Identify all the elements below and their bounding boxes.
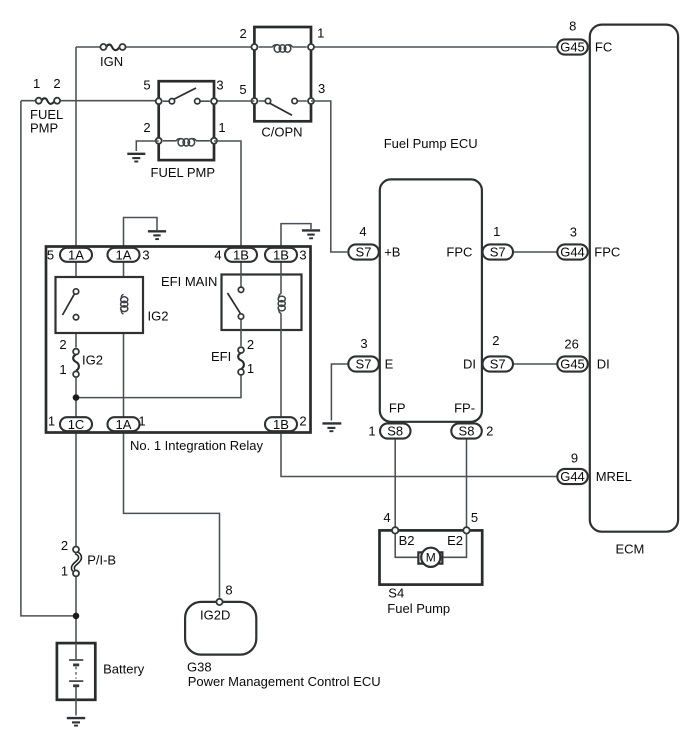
svg-text:1: 1 bbox=[33, 76, 40, 91]
wire 1A3 oval to coil bbox=[123, 258, 125, 295]
svg-text:FPC: FPC bbox=[594, 245, 620, 260]
svg-text:G44: G44 bbox=[560, 469, 585, 484]
coil C/OPN bbox=[259, 46, 307, 48]
svg-text:2: 2 bbox=[486, 424, 493, 439]
wire IGN feed horizontal bbox=[76, 46, 254, 48]
svg-text:1: 1 bbox=[247, 361, 254, 376]
svg-text:1A: 1A bbox=[68, 247, 84, 262]
wire FP- S8 down bbox=[466, 439, 468, 527]
battery bbox=[57, 643, 95, 715]
relay C/OPN bbox=[251, 27, 314, 121]
connector 1A pin1 bbox=[108, 417, 140, 432]
ground at FUEL PMP relay bbox=[127, 154, 145, 162]
svg-text:P/I-B: P/I-B bbox=[87, 553, 116, 568]
connector pin 8 of G38 bbox=[216, 599, 222, 605]
svg-text:2: 2 bbox=[492, 333, 499, 348]
connector S8 FP bbox=[380, 423, 411, 438]
svg-text:3: 3 bbox=[360, 336, 367, 351]
svg-text:2: 2 bbox=[239, 26, 246, 41]
wire 1B pin3 to ground bbox=[281, 224, 311, 250]
fuse FUEL PMP bbox=[36, 98, 60, 104]
switch EFI MAIN bbox=[228, 287, 244, 319]
svg-text:Power Management Control ECU: Power Management Control ECU bbox=[188, 674, 381, 689]
fusible link P/I-B bbox=[73, 547, 80, 577]
svg-text:S7: S7 bbox=[490, 357, 506, 372]
svg-text:MREL: MREL bbox=[596, 469, 632, 484]
wire 1B3 oval to EFI MAIN coil bbox=[280, 258, 282, 294]
svg-text:1: 1 bbox=[138, 414, 145, 429]
svg-text:G38: G38 bbox=[187, 660, 212, 675]
coil EFI MAIN bbox=[278, 294, 285, 314]
svg-text:G44: G44 bbox=[560, 245, 585, 260]
wire C/OPN pin3 to Fuel Pump ECU +B bbox=[311, 101, 347, 252]
fuse EFI bbox=[238, 347, 244, 375]
svg-text:IG2D: IG2D bbox=[200, 608, 230, 623]
No.1 Integration Relay box bbox=[46, 247, 311, 433]
wire FP S8 down bbox=[394, 439, 396, 527]
svg-text:FP-: FP- bbox=[454, 401, 475, 416]
wire 1B4 oval to EFI switch bbox=[240, 258, 242, 287]
fuel pump S4 box bbox=[380, 527, 483, 584]
wire 1A1 to IG2D bbox=[124, 434, 220, 598]
junction dot battery bbox=[73, 613, 80, 620]
ground above integration relay left bbox=[148, 231, 166, 239]
switch FUEL PMP bbox=[163, 100, 210, 102]
svg-text:5: 5 bbox=[471, 510, 478, 525]
motor brushes bbox=[418, 552, 424, 563]
svg-text:3: 3 bbox=[318, 81, 325, 96]
svg-text:IG2: IG2 bbox=[148, 309, 169, 324]
svg-text:1B: 1B bbox=[233, 247, 249, 262]
svg-text:FC: FC bbox=[595, 40, 612, 55]
svg-text:5: 5 bbox=[47, 248, 54, 263]
svg-text:1: 1 bbox=[48, 414, 55, 429]
connector G45 FC bbox=[557, 39, 588, 54]
svg-text:1B: 1B bbox=[273, 417, 289, 432]
svg-text:DI: DI bbox=[463, 357, 476, 372]
relay IG2 sub-box bbox=[56, 277, 144, 333]
G38 Power Management Control ECU box bbox=[185, 599, 256, 655]
Fuel Pump ECU box bbox=[380, 179, 482, 421]
wire IG2 switch to IG2 fuse bbox=[75, 320, 77, 347]
svg-text:FP: FP bbox=[389, 401, 406, 416]
wire FUEL PMP relay pin3 to C/OPN pin5 bbox=[214, 100, 254, 102]
wire left rail down bbox=[21, 101, 76, 616]
svg-text:S8: S8 bbox=[387, 424, 403, 439]
svg-text:4: 4 bbox=[214, 248, 221, 263]
svg-text:1: 1 bbox=[59, 362, 66, 377]
svg-text:1: 1 bbox=[218, 120, 225, 135]
wire 1B2 to MREL bbox=[281, 434, 558, 477]
fuse IGN bbox=[100, 44, 125, 50]
svg-text:B2: B2 bbox=[399, 533, 415, 548]
wire FPC S7 to G44 bbox=[513, 251, 558, 253]
wire S7 E to ground bbox=[331, 364, 347, 421]
svg-text:S7: S7 bbox=[490, 245, 506, 260]
svg-text:4: 4 bbox=[359, 224, 366, 239]
svg-text:E2: E2 bbox=[447, 533, 463, 548]
connector S7 DI bbox=[483, 356, 514, 371]
svg-text:IG2: IG2 bbox=[82, 353, 103, 368]
connector 1B pin4 bbox=[225, 247, 257, 262]
svg-text:1: 1 bbox=[61, 564, 68, 579]
connector G44 MREL bbox=[557, 469, 588, 484]
svg-text:9: 9 bbox=[571, 450, 578, 465]
svg-text:G45: G45 bbox=[560, 357, 585, 372]
svg-text:S4: S4 bbox=[388, 585, 404, 600]
svg-text:1: 1 bbox=[368, 424, 375, 439]
coil FUEL PMP bbox=[163, 140, 210, 142]
svg-text:3: 3 bbox=[299, 248, 306, 263]
motor wires bbox=[395, 534, 418, 557]
svg-text:DI: DI bbox=[597, 357, 610, 372]
svg-text:5: 5 bbox=[143, 78, 150, 93]
fuse IG2 bbox=[73, 349, 79, 377]
svg-text:1: 1 bbox=[493, 224, 500, 239]
wire 1A pin3 to ground bbox=[124, 218, 158, 251]
svg-text:FUEL PMP: FUEL PMP bbox=[151, 165, 216, 180]
connector G45 DI bbox=[557, 356, 588, 371]
ground at E bbox=[322, 423, 341, 431]
wire IG2 fuse to 1C oval, junction bbox=[75, 378, 77, 421]
connector S8 FP- bbox=[451, 423, 482, 438]
svg-text:3: 3 bbox=[216, 78, 223, 93]
junction dot bbox=[73, 394, 80, 401]
svg-text:FPC: FPC bbox=[446, 245, 472, 260]
wire 1A5 oval to IG2 switch bbox=[75, 258, 77, 289]
svg-text:S7: S7 bbox=[356, 245, 372, 260]
svg-text:2: 2 bbox=[247, 337, 254, 352]
coil IG2 relay bbox=[121, 294, 128, 314]
svg-text:5: 5 bbox=[239, 82, 246, 97]
svg-text:2: 2 bbox=[61, 538, 68, 553]
connector 1B pin2 bbox=[265, 417, 297, 432]
connector 1C pin1 bbox=[60, 417, 92, 432]
wire EFI fuse down and left to junction bbox=[76, 375, 241, 397]
svg-text:Fuel Pump ECU: Fuel Pump ECU bbox=[384, 136, 478, 151]
svg-text:+B: +B bbox=[384, 245, 400, 260]
switch C/OPN bbox=[259, 100, 307, 102]
svg-text:ECM: ECM bbox=[616, 542, 645, 557]
svg-text:2: 2 bbox=[143, 120, 150, 135]
terminal 4 bbox=[392, 527, 398, 533]
ground below battery bbox=[67, 718, 85, 726]
svg-text:2: 2 bbox=[53, 76, 60, 91]
connector S7 FPC bbox=[483, 244, 514, 259]
svg-text:Battery: Battery bbox=[103, 662, 145, 677]
wire DI S7 to G45 bbox=[513, 363, 558, 365]
svg-text:E: E bbox=[385, 357, 394, 372]
svg-text:EFI: EFI bbox=[211, 349, 231, 364]
wire FUEL PMP pin1 to 1B pin4 bbox=[214, 141, 241, 250]
ECM box bbox=[590, 25, 678, 532]
connector S7 +B bbox=[348, 244, 379, 259]
svg-text:G45: G45 bbox=[560, 40, 585, 55]
svg-text:2: 2 bbox=[59, 337, 66, 352]
wire FC line from C/OPN pin1 to ECM bbox=[311, 46, 558, 48]
wire EFI switch to EFI fuse bbox=[240, 319, 242, 346]
relay EFI MAIN sub-box bbox=[222, 275, 302, 331]
svg-text:1A: 1A bbox=[116, 247, 132, 262]
svg-text:PMP: PMP bbox=[30, 121, 58, 136]
svg-text:IGN: IGN bbox=[100, 54, 123, 69]
svg-text:S8: S8 bbox=[459, 424, 475, 439]
terminal 5 bbox=[463, 527, 469, 533]
wire FUEL PMP fuse feed bbox=[21, 100, 159, 102]
connector 1A pin3 bbox=[108, 247, 140, 262]
svg-text:1B: 1B bbox=[273, 247, 289, 262]
svg-text:1C: 1C bbox=[68, 417, 85, 432]
connector 1A pin5 bbox=[60, 247, 92, 262]
wire IGN vertical down to 1A pin5 bbox=[75, 47, 77, 250]
svg-text:EFI MAIN: EFI MAIN bbox=[161, 274, 217, 289]
ground above integration relay right bbox=[302, 230, 320, 238]
svg-text:26: 26 bbox=[564, 337, 578, 352]
wire 1C to P/I-B fuse to battery bbox=[75, 434, 77, 644]
svg-text:4: 4 bbox=[383, 510, 390, 525]
svg-text:No. 1 Integration Relay: No. 1 Integration Relay bbox=[130, 438, 263, 453]
connector G44 FPC bbox=[557, 244, 588, 259]
svg-text:1: 1 bbox=[317, 26, 324, 41]
wire FUEL PMP pin2 to ground bbox=[136, 141, 158, 151]
svg-text:3: 3 bbox=[142, 248, 149, 263]
svg-text:Fuel Pump: Fuel Pump bbox=[387, 601, 450, 616]
relay FUEL PMP bbox=[156, 81, 217, 160]
connector 1B pin3 bbox=[265, 247, 297, 262]
svg-text:3: 3 bbox=[570, 225, 577, 240]
svg-text:C/OPN: C/OPN bbox=[261, 125, 302, 140]
svg-text:M: M bbox=[426, 551, 436, 565]
svg-text:8: 8 bbox=[225, 583, 232, 598]
wire coil down to 1A1 oval bbox=[123, 314, 125, 421]
svg-text:2: 2 bbox=[299, 414, 306, 429]
wire EFI MAIN coil to 1B2 oval bbox=[280, 313, 282, 421]
svg-text:S7: S7 bbox=[356, 357, 372, 372]
connector S7 E bbox=[348, 356, 379, 371]
svg-text:1A: 1A bbox=[116, 417, 132, 432]
switch IG2 bbox=[63, 289, 79, 320]
svg-text:8: 8 bbox=[569, 19, 576, 34]
motor M bbox=[421, 548, 440, 567]
